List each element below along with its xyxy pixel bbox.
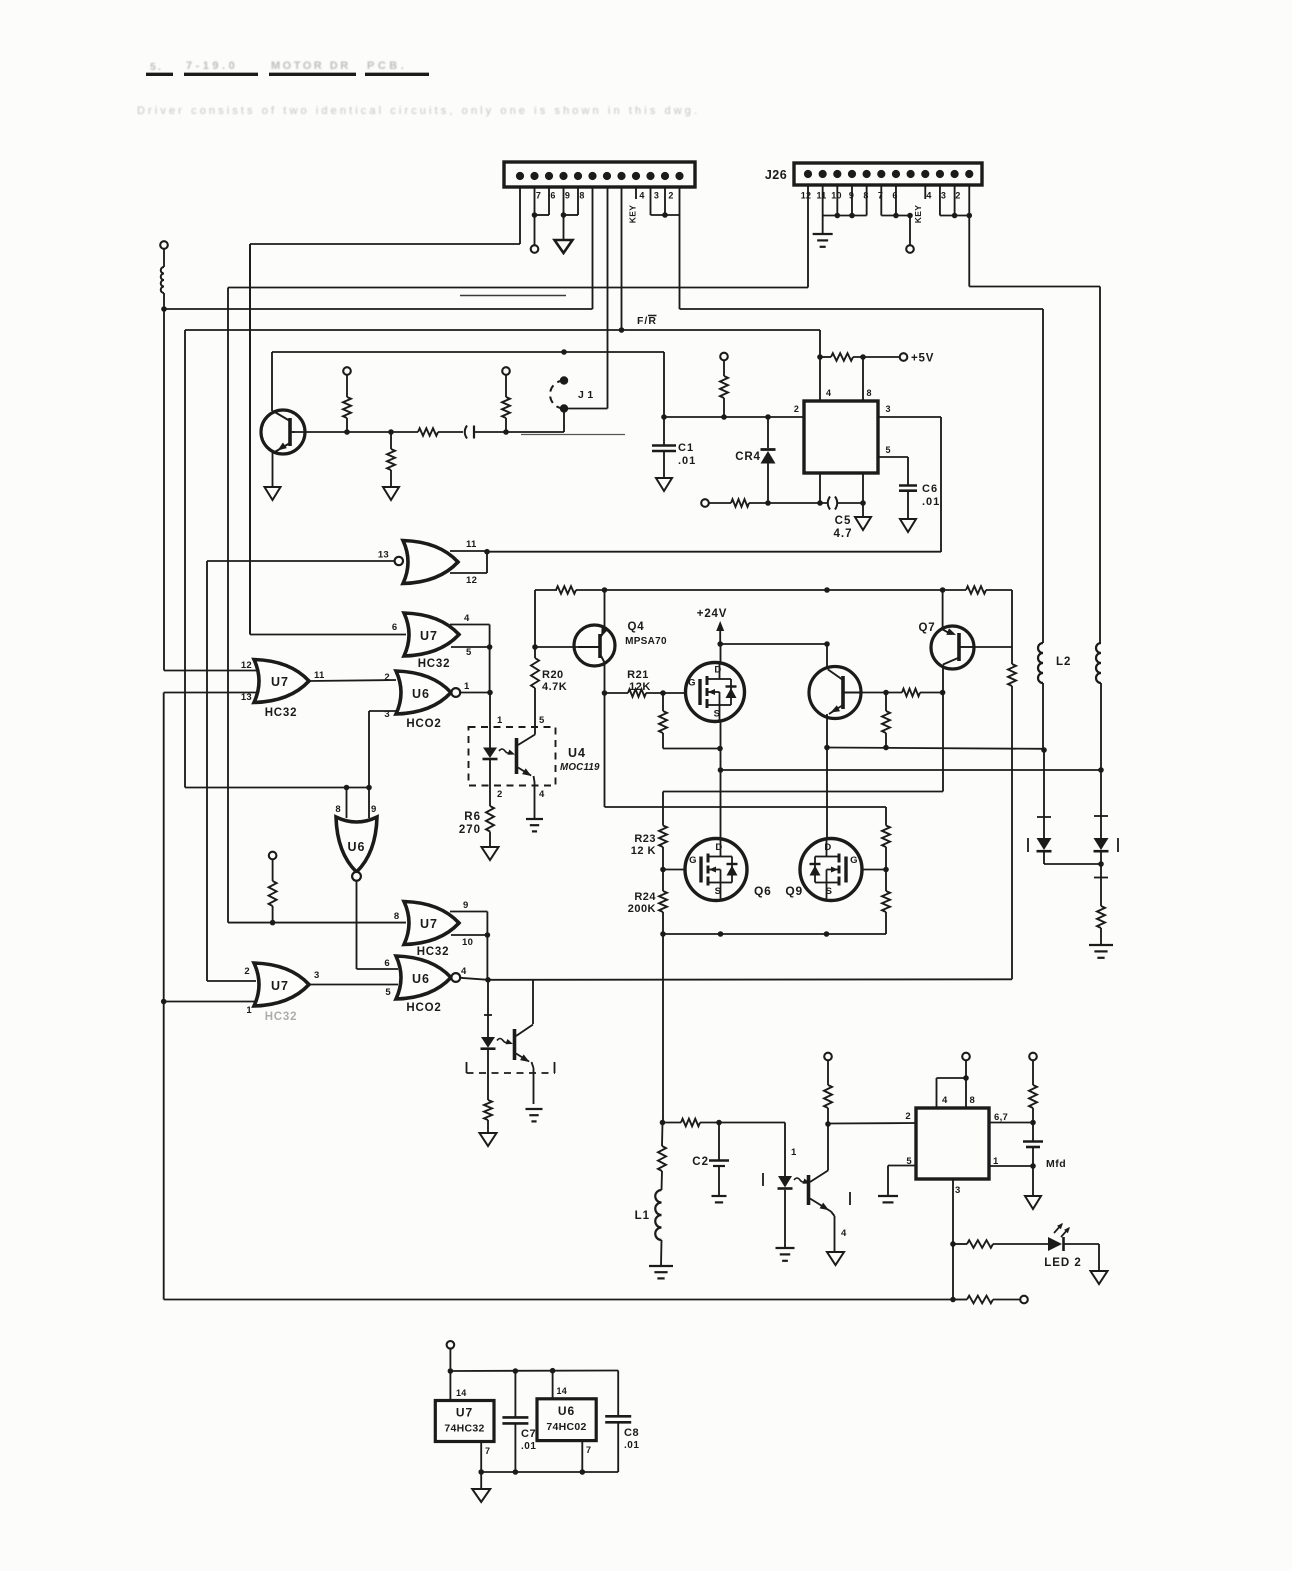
svg-text:11: 11: [816, 191, 826, 201]
svg-text:Mfd: Mfd: [1046, 1158, 1066, 1170]
svg-text:L2: L2: [1056, 656, 1071, 668]
svg-text:1: 1: [464, 681, 470, 692]
svg-text:C6: C6: [922, 483, 938, 495]
svg-text:.01: .01: [624, 1440, 639, 1451]
svg-text:12: 12: [466, 575, 477, 586]
svg-text:G: G: [850, 855, 858, 866]
svg-text:1: 1: [246, 1005, 252, 1016]
svg-text:270: 270: [459, 824, 481, 836]
svg-text:U7: U7: [420, 917, 438, 931]
svg-text:1: 1: [497, 715, 503, 726]
svg-text:HC32: HC32: [265, 707, 298, 719]
svg-text:C8: C8: [624, 1427, 639, 1439]
svg-text:2: 2: [497, 789, 503, 800]
svg-text:Q9: Q9: [785, 884, 803, 898]
svg-text:7-19.0: 7-19.0: [186, 60, 238, 72]
svg-text:3: 3: [314, 970, 320, 981]
svg-text:U7: U7: [271, 675, 289, 689]
svg-text:2: 2: [668, 191, 673, 201]
svg-text:4: 4: [826, 388, 831, 398]
svg-text:11: 11: [314, 670, 325, 681]
svg-text:4: 4: [539, 789, 545, 800]
svg-text:U6: U6: [412, 687, 430, 701]
svg-text:4.7K: 4.7K: [542, 681, 567, 693]
svg-text:74HC02: 74HC02: [546, 1421, 586, 1433]
svg-text:D: D: [714, 665, 721, 676]
svg-text:D: D: [715, 842, 722, 853]
svg-text:6: 6: [550, 191, 555, 201]
svg-text:9: 9: [371, 804, 377, 815]
svg-text:R20: R20: [542, 669, 564, 681]
svg-text:Q4: Q4: [628, 621, 645, 633]
svg-text:3: 3: [654, 191, 659, 201]
svg-text:HC32: HC32: [418, 658, 451, 670]
svg-text:6: 6: [392, 622, 398, 633]
svg-text:13: 13: [378, 550, 389, 561]
svg-text:U6: U6: [412, 972, 430, 986]
svg-text:5: 5: [385, 987, 391, 998]
svg-text:3: 3: [955, 1185, 961, 1196]
svg-text:7: 7: [586, 1445, 591, 1455]
svg-text:12 K: 12 K: [631, 845, 656, 857]
svg-text:4: 4: [461, 966, 467, 977]
svg-text:MOTOR DR: MOTOR DR: [271, 60, 351, 72]
svg-text:3: 3: [886, 404, 891, 414]
svg-text:4: 4: [942, 1095, 948, 1106]
svg-text:C5: C5: [835, 515, 852, 527]
svg-text:U7: U7: [420, 629, 438, 643]
svg-text:2: 2: [384, 672, 390, 683]
svg-text:PCB.: PCB.: [367, 60, 407, 72]
svg-text:2: 2: [244, 966, 250, 977]
svg-text:5: 5: [539, 715, 545, 726]
svg-text:+5V: +5V: [911, 353, 934, 365]
svg-text:Q6: Q6: [754, 884, 772, 898]
svg-text:U7: U7: [456, 1406, 473, 1420]
svg-text:C1: C1: [678, 442, 694, 454]
svg-text:.01: .01: [678, 455, 696, 467]
svg-text:J 1: J 1: [578, 389, 594, 401]
svg-text:8: 8: [867, 388, 872, 398]
svg-text:200K: 200K: [628, 903, 656, 915]
svg-text:5: 5: [886, 445, 891, 455]
svg-text:.01: .01: [922, 496, 940, 508]
svg-text:4: 4: [841, 1228, 847, 1239]
svg-text:2: 2: [794, 404, 799, 414]
svg-text:14: 14: [456, 1388, 467, 1398]
svg-text:74HC32: 74HC32: [444, 1423, 484, 1435]
svg-text:U6: U6: [348, 840, 366, 854]
svg-text:LED 2: LED 2: [1044, 1257, 1082, 1269]
svg-text:MOC119: MOC119: [560, 762, 600, 773]
svg-text:14: 14: [557, 1386, 568, 1396]
svg-text:HCO2: HCO2: [406, 1002, 441, 1014]
svg-text:HCO2: HCO2: [406, 718, 441, 730]
svg-text:Driver consists of two identic: Driver consists of two identical circuit…: [137, 105, 700, 117]
svg-text:6: 6: [384, 958, 390, 969]
svg-text:12K: 12K: [629, 681, 651, 693]
svg-text:4: 4: [639, 191, 644, 201]
svg-text:HC32: HC32: [265, 1011, 298, 1023]
svg-text:D: D: [824, 842, 831, 853]
svg-text:C2: C2: [692, 1156, 709, 1168]
svg-text:R21: R21: [627, 669, 649, 681]
svg-text:8: 8: [335, 804, 341, 815]
svg-text:9: 9: [463, 900, 469, 911]
svg-text:F/R: F/R: [637, 315, 657, 327]
svg-text:4: 4: [926, 191, 931, 201]
svg-text:G: G: [688, 678, 696, 689]
svg-text:5: 5: [466, 647, 472, 658]
svg-text:13: 13: [241, 692, 252, 703]
svg-text:12: 12: [801, 191, 812, 201]
svg-text:3: 3: [941, 191, 946, 201]
svg-text:7: 7: [485, 1446, 490, 1456]
svg-text:9: 9: [565, 191, 570, 201]
svg-text:CR4: CR4: [735, 451, 760, 463]
svg-text:J26: J26: [765, 168, 787, 182]
svg-text:2: 2: [955, 191, 960, 201]
svg-text:6,7: 6,7: [994, 1112, 1008, 1123]
svg-text:7: 7: [536, 191, 541, 201]
svg-text:8: 8: [394, 911, 400, 922]
svg-text:Q7: Q7: [919, 622, 936, 634]
svg-text:S: S: [715, 886, 722, 897]
svg-text:R24: R24: [634, 891, 656, 903]
svg-text:2: 2: [905, 1111, 911, 1122]
svg-text:U7: U7: [271, 979, 289, 993]
svg-text:3: 3: [384, 709, 390, 720]
svg-text:4.7: 4.7: [834, 528, 853, 540]
svg-text:R23: R23: [634, 833, 656, 845]
svg-text:L1: L1: [635, 1210, 650, 1222]
svg-text:R6: R6: [464, 811, 481, 823]
svg-text:5.: 5.: [150, 61, 163, 73]
svg-text:12: 12: [241, 660, 252, 671]
svg-text:S: S: [826, 886, 833, 897]
svg-text:.01: .01: [521, 1441, 536, 1452]
svg-text:HC32: HC32: [417, 946, 450, 958]
svg-text:+24V: +24V: [697, 608, 727, 620]
svg-text:KEY: KEY: [628, 205, 638, 223]
svg-text:G: G: [689, 855, 697, 866]
svg-text:C7: C7: [521, 1428, 536, 1440]
svg-text:KEY: KEY: [913, 205, 923, 223]
svg-text:4: 4: [464, 613, 470, 624]
svg-text:U6: U6: [558, 1404, 575, 1418]
svg-text:8: 8: [970, 1095, 976, 1106]
svg-text:1: 1: [791, 1147, 797, 1158]
svg-text:10: 10: [462, 937, 473, 948]
svg-text:11: 11: [466, 539, 477, 550]
svg-text:U4: U4: [568, 746, 586, 760]
svg-text:S: S: [714, 709, 721, 720]
svg-text:MPSA70: MPSA70: [625, 636, 667, 647]
svg-text:8: 8: [579, 191, 584, 201]
